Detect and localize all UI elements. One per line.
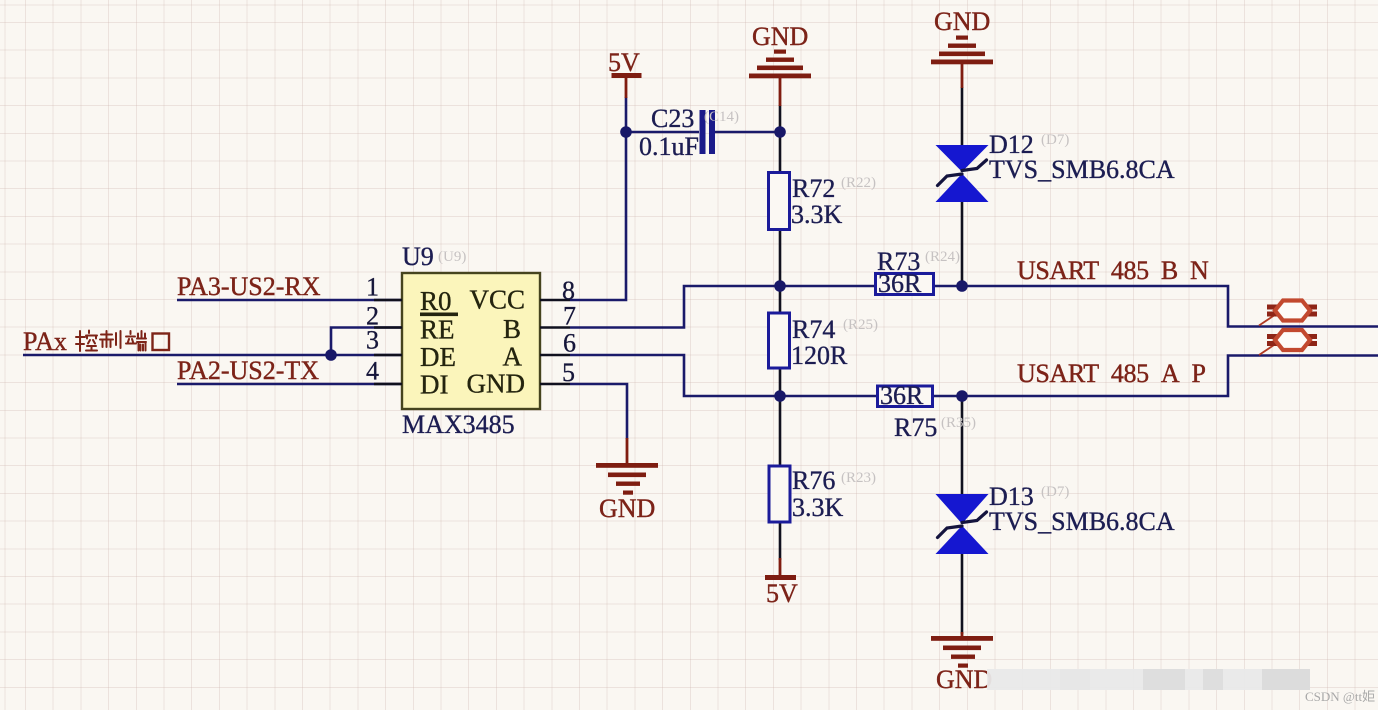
svg-text:TVS_SMB6.8CA: TVS_SMB6.8CA xyxy=(989,155,1175,184)
svg-text:120R: 120R xyxy=(791,341,848,370)
net label hanzi kong (control) xyxy=(76,331,97,352)
svg-text:GND: GND xyxy=(936,665,992,694)
wire pin5 to ground xyxy=(570,384,627,439)
svg-text:(R23): (R23) xyxy=(841,470,876,486)
wire C23 left xyxy=(626,131,699,134)
resistor R73 36R xyxy=(876,247,961,298)
node C23-5V xyxy=(620,126,632,138)
svg-text:0.1uF: 0.1uF xyxy=(639,132,699,161)
node C23-GND xyxy=(774,126,786,138)
wire branch to pin2 xyxy=(331,328,402,356)
node A-R74-R76 xyxy=(774,390,786,402)
svg-text:VCC: VCC xyxy=(469,285,525,315)
svg-text:GND: GND xyxy=(934,7,990,36)
connector pad 1 xyxy=(1259,301,1317,326)
tvs diode D12 xyxy=(936,130,1175,202)
svg-text:TVS_SMB6.8CA: TVS_SMB6.8CA xyxy=(989,507,1175,536)
wire pin6 to A line jog xyxy=(570,355,877,396)
svg-text:R75: R75 xyxy=(894,413,937,442)
svg-text:USART 485 B N: USART 485 B N xyxy=(1017,256,1209,285)
power port 5V top xyxy=(608,48,642,98)
svg-text:(R24): (R24) xyxy=(925,249,960,265)
wire GND chain to C23 node and R72 xyxy=(779,105,782,172)
svg-text:PAx: PAx xyxy=(23,327,67,356)
tvs diode D13 xyxy=(936,482,1175,554)
power port GND bottom-right (D13) xyxy=(931,632,993,694)
svg-text:PA3-US2-RX: PA3-US2-RX xyxy=(177,272,321,301)
wire D13 to GND bottom xyxy=(961,554,964,634)
svg-text:(U9): (U9) xyxy=(438,249,466,265)
svg-text:(R22): (R22) xyxy=(841,175,876,191)
wire R74 to A node xyxy=(779,368,782,466)
power port GND bottom-left (pin5) xyxy=(596,438,658,523)
svg-text:3: 3 xyxy=(366,326,379,355)
wire A node to D13 xyxy=(961,396,964,494)
wire B line R73 to corner and out xyxy=(933,286,1378,327)
wire net PA3-US2-RX to pin1 xyxy=(177,299,402,302)
ic U9 MAX3485 xyxy=(366,242,576,439)
svg-text:(C14): (C14) xyxy=(704,109,739,125)
svg-text:R73: R73 xyxy=(877,247,920,276)
wire R76 to 5V bottom xyxy=(779,522,782,560)
svg-text:R72: R72 xyxy=(792,174,835,203)
svg-text:CSDN @tt姖: CSDN @tt姖 xyxy=(1305,689,1375,704)
wire net PAx to pin3 xyxy=(23,354,402,357)
node B-D12 xyxy=(956,280,968,292)
node B-R72-R74 xyxy=(774,280,786,292)
svg-text:GND: GND xyxy=(752,22,808,51)
svg-text:B: B xyxy=(503,314,521,344)
connector pad 2 xyxy=(1259,330,1317,355)
svg-text:R74: R74 xyxy=(792,315,835,344)
resistor R75 36R xyxy=(878,381,977,442)
net label hanzi kou (port) xyxy=(153,334,170,351)
svg-text:R0: R0 xyxy=(420,286,452,316)
svg-text:1: 1 xyxy=(366,273,379,302)
net label hanzi duan xyxy=(126,331,146,351)
wire D12 to B node xyxy=(961,202,964,286)
capacitor C23 xyxy=(639,104,739,161)
svg-text:C23: C23 xyxy=(651,104,694,133)
svg-text:RE: RE xyxy=(420,315,455,345)
svg-text:GND: GND xyxy=(599,494,655,523)
pin RE overbar xyxy=(420,313,458,317)
node junction PAx/pin2 branch xyxy=(325,349,337,361)
svg-text:USART 485 A P: USART 485 A P xyxy=(1017,359,1206,388)
pin stubs left xyxy=(374,300,402,384)
svg-text:5V: 5V xyxy=(608,48,640,77)
svg-text:(D7): (D7) xyxy=(1041,484,1069,500)
wire R72 to B node xyxy=(779,229,782,313)
svg-text:GND: GND xyxy=(467,369,526,399)
wire GND to D12 xyxy=(961,87,964,146)
svg-text:7: 7 xyxy=(563,302,576,331)
wire pin7 to B line jog xyxy=(570,286,875,328)
svg-text:36R: 36R xyxy=(880,381,924,410)
power port 5V bottom xyxy=(765,558,798,608)
power port GND top-right xyxy=(931,7,993,88)
svg-text:6: 6 xyxy=(563,329,576,358)
wire net PA2-US2-TX to pin4 xyxy=(177,383,402,386)
svg-text:R76: R76 xyxy=(792,466,835,495)
resistor R76 3.3K xyxy=(769,466,876,522)
resistor R74 120R xyxy=(769,313,879,370)
svg-text:PA2-US2-TX: PA2-US2-TX xyxy=(177,356,319,385)
svg-text:(D7): (D7) xyxy=(1041,132,1069,148)
svg-text:(R25): (R25) xyxy=(843,317,878,333)
svg-text:DI: DI xyxy=(420,370,449,400)
svg-text:5V: 5V xyxy=(766,579,798,608)
svg-text:4: 4 xyxy=(366,357,379,386)
resistor R72 3.3K xyxy=(769,173,877,230)
svg-text:5: 5 xyxy=(562,358,575,387)
pin stubs right xyxy=(540,300,570,384)
svg-text:(R35): (R35) xyxy=(941,415,976,431)
svg-text:U9: U9 xyxy=(402,242,434,271)
svg-text:A: A xyxy=(503,342,523,372)
node A-D13 xyxy=(956,390,968,402)
svg-text:3.3K: 3.3K xyxy=(791,200,843,229)
wire A line R75 to corner and out xyxy=(932,356,1378,397)
watermark band bottom right xyxy=(987,669,1310,690)
power port GND top-left xyxy=(749,22,811,106)
svg-text:3.3K: 3.3K xyxy=(792,493,844,522)
svg-text:MAX3485: MAX3485 xyxy=(402,410,515,439)
wire 5V rail to pin8 xyxy=(570,97,626,300)
net label hanzi zhi xyxy=(100,331,121,348)
svg-text:DE: DE xyxy=(420,342,456,372)
wire C23 right to GND node xyxy=(715,131,780,134)
